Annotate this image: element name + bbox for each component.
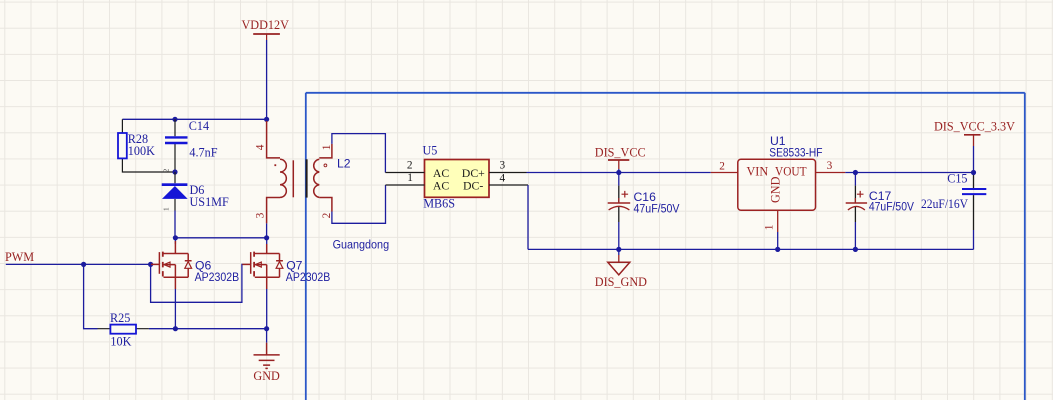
junction dot <box>264 235 269 240</box>
U5 pin 2 <box>385 172 424 174</box>
svg-text:1: 1 <box>764 225 776 231</box>
regulator U1 <box>738 134 823 210</box>
svg-text:DIS_GND: DIS_GND <box>595 275 647 289</box>
U5 pin 1 <box>386 184 425 186</box>
svg-text:47uF/50V: 47uF/50V <box>634 202 681 216</box>
U1 pin 2 <box>711 172 738 174</box>
bridge rectifier U5 <box>423 144 490 211</box>
svg-text:SE8533-HF: SE8533-HF <box>769 146 822 160</box>
svg-text:DIS_VCC: DIS_VCC <box>595 145 646 159</box>
junction dot <box>172 169 177 174</box>
U5 pin 4 <box>489 184 528 186</box>
svg-text:1: 1 <box>407 172 413 184</box>
svg-text:US1MF: US1MF <box>190 195 230 209</box>
svg-text:AP2302B: AP2302B <box>286 270 331 284</box>
wire PWM horizontal <box>6 263 151 265</box>
junction dot <box>616 170 621 175</box>
wire Q6 source down <box>174 289 176 329</box>
wire bottom rail <box>528 248 974 250</box>
junction dot <box>264 326 269 331</box>
transformer L2 secondary winding <box>314 144 332 212</box>
wire drain rail <box>175 237 267 239</box>
svg-text:3: 3 <box>500 160 506 172</box>
svg-text:AC: AC <box>433 178 450 192</box>
svg-text:VOUT: VOUT <box>775 165 807 179</box>
wire secondary top to U5 pin2 <box>332 134 386 173</box>
wire VOUT rail <box>845 172 973 174</box>
wire U5 pin3 to U1 (DIS_VCC rail) <box>527 172 711 174</box>
wire top horizontal R28/C14/VDD <box>122 118 266 120</box>
transformer core line 2 <box>306 159 308 197</box>
transistor Q7 <box>242 244 283 289</box>
svg-text:2: 2 <box>321 212 333 218</box>
capacitor C16 <box>608 174 681 248</box>
svg-text:MB6S: MB6S <box>423 196 455 210</box>
junction dot <box>173 235 178 240</box>
svg-text:1: 1 <box>321 145 333 151</box>
junction dot <box>173 326 178 331</box>
polarity dot secondary <box>324 164 327 167</box>
svg-text:AP2302B: AP2302B <box>195 270 240 284</box>
wire gate bypass to Q7 <box>151 264 243 302</box>
wire VDD12V vertical <box>266 40 268 119</box>
svg-text:C15: C15 <box>947 172 967 186</box>
capacitor C14 <box>165 119 218 172</box>
wire drain stubs <box>175 238 266 244</box>
wire D6 to drain rail <box>174 211 176 238</box>
power port DIS_VCC_3.3V <box>934 120 1015 146</box>
svg-text:4: 4 <box>500 173 506 185</box>
svg-text:DIS_VCC_3.3V: DIS_VCC_3.3V <box>934 120 1015 134</box>
wire DIS_VCC stub <box>618 169 620 173</box>
svg-text:PWM: PWM <box>5 250 34 264</box>
resistor R28 <box>118 119 175 172</box>
junction dot <box>971 170 976 175</box>
svg-text:100K: 100K <box>128 144 155 158</box>
svg-text:VDD12V: VDD12V <box>242 18 290 32</box>
wire GND drop <box>266 329 268 343</box>
junction dot <box>172 117 177 122</box>
U1 pin 1 <box>777 210 779 232</box>
resistor R25 <box>98 311 149 349</box>
svg-text:C14: C14 <box>189 119 209 133</box>
wire U5 pin4 to bottom rail <box>527 185 529 249</box>
power port DIS_VCC <box>595 145 646 169</box>
wire Q7 source down <box>266 289 268 329</box>
sheet partition box <box>306 93 1025 400</box>
junction dot <box>81 262 86 267</box>
wire source rail <box>149 328 267 330</box>
svg-text:10K: 10K <box>110 334 131 348</box>
junction dot <box>148 262 153 267</box>
power port VDD12V <box>242 18 290 40</box>
wire 3.3V stub <box>973 146 975 173</box>
wire PWM to R25 <box>84 264 98 328</box>
svg-text:3: 3 <box>255 212 267 218</box>
svg-text:R25: R25 <box>110 311 130 325</box>
junction dot <box>775 247 780 252</box>
svg-text:GND: GND <box>253 369 280 383</box>
wire pin3 to drain rail <box>266 223 268 237</box>
polarity dot primary <box>274 164 276 166</box>
svg-text:2: 2 <box>407 160 413 172</box>
wire secondary bottom to U5 pin1 <box>332 185 386 223</box>
junction dot <box>853 247 858 252</box>
svg-text:2: 2 <box>719 160 725 172</box>
svg-text:GND: GND <box>769 176 783 203</box>
wire U1 pin1 to rail <box>777 232 779 249</box>
svg-text:4: 4 <box>255 144 267 150</box>
power port GND <box>254 343 280 369</box>
svg-text:4.7nF: 4.7nF <box>189 146 217 160</box>
power port DIS_GND <box>595 249 647 289</box>
diode D6 <box>162 169 230 212</box>
svg-text:Guangdong: Guangdong <box>333 237 390 251</box>
svg-text:DC-: DC- <box>463 178 483 192</box>
svg-text:2: 2 <box>162 169 171 173</box>
transformer core <box>292 160 294 197</box>
svg-text:U5: U5 <box>423 144 438 158</box>
svg-text:L2: L2 <box>337 157 351 171</box>
U5 pin 3 <box>489 172 527 174</box>
capacitor C15 <box>921 172 986 250</box>
svg-text:47uF/50V: 47uF/50V <box>869 200 915 214</box>
junction dot <box>616 247 621 252</box>
svg-text:3: 3 <box>827 160 833 172</box>
junction dot <box>853 170 858 175</box>
U1 pin 3 <box>816 172 846 174</box>
svg-text:1: 1 <box>162 207 171 211</box>
junction dot <box>264 117 269 122</box>
capacitor C17 <box>846 174 915 248</box>
svg-text:22uF/16V: 22uF/16V <box>921 197 968 211</box>
transformer L2 primary winding <box>267 121 287 223</box>
svg-text:VIN: VIN <box>747 165 769 179</box>
transistor Q6 <box>151 241 192 289</box>
